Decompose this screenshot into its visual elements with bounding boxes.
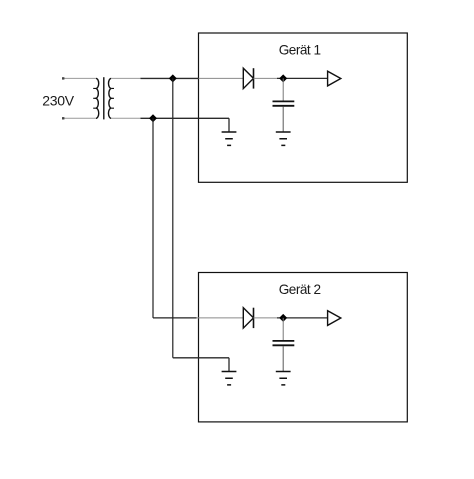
node primary top terminal (62, 77, 64, 79)
capacitor C2 (273, 341, 295, 345)
wire vertical drop to Geraet 2 ground (172, 78, 174, 357)
wire secondary top (thin) (111, 77, 141, 79)
wire horizontal into Geraet 2 diode (153, 317, 197, 319)
svg-text:Gerät 1: Gerät 1 (279, 42, 321, 57)
node output junction 2 (279, 314, 287, 322)
node primary bottom terminal (62, 117, 64, 119)
svg-text:230V: 230V (42, 92, 74, 108)
wire into diode D2 (197, 317, 244, 319)
ground left Geraet 1 (222, 132, 237, 145)
transformer core (103, 77, 105, 119)
wire node to amplifier A2 (277, 317, 328, 319)
capacitor C1 (273, 101, 295, 105)
wire secondary top to box (141, 77, 199, 79)
transformer TR1 secondary winding (108, 78, 114, 118)
wire secondary bottom to box (141, 117, 199, 119)
wire capacitor C2 stem bottom (282, 346, 284, 372)
ground under C2 (276, 372, 291, 385)
wire vertical drop to Geraet 2 diode (152, 118, 154, 318)
transformer TR1 primary winding (93, 78, 99, 118)
diode D1 (243, 68, 253, 88)
wire node to amplifier A1 (277, 77, 328, 79)
node junction bottom (149, 114, 157, 122)
wire capacitor C1 stem top (282, 78, 284, 100)
wire diode D2 to node (254, 317, 278, 319)
wire secondary bottom (thin) (111, 117, 141, 119)
op-amp buffer A2 (328, 311, 341, 326)
op-amp buffer A1 (328, 71, 341, 86)
node junction top (169, 74, 177, 82)
wire ground feed Geraet 2 (173, 358, 229, 372)
svg-text:Gerät 2: Gerät 2 (279, 282, 321, 297)
wire ground feed Geraet 1 (199, 118, 230, 132)
wire capacitor C2 stem top (282, 318, 284, 340)
wire primary bottom lead (64, 117, 97, 119)
device box Geraet 1 (199, 33, 408, 182)
node output junction 1 (279, 74, 287, 82)
wire into diode D1 (199, 77, 244, 79)
diode D2 (243, 308, 253, 328)
device box Geraet 2 (199, 273, 408, 422)
ground left Geraet 2 (222, 372, 237, 385)
wire diode D1 to node (254, 77, 278, 79)
ground under C1 (276, 132, 291, 145)
wire capacitor C1 stem bottom (282, 107, 284, 133)
wire primary top lead (64, 77, 97, 79)
